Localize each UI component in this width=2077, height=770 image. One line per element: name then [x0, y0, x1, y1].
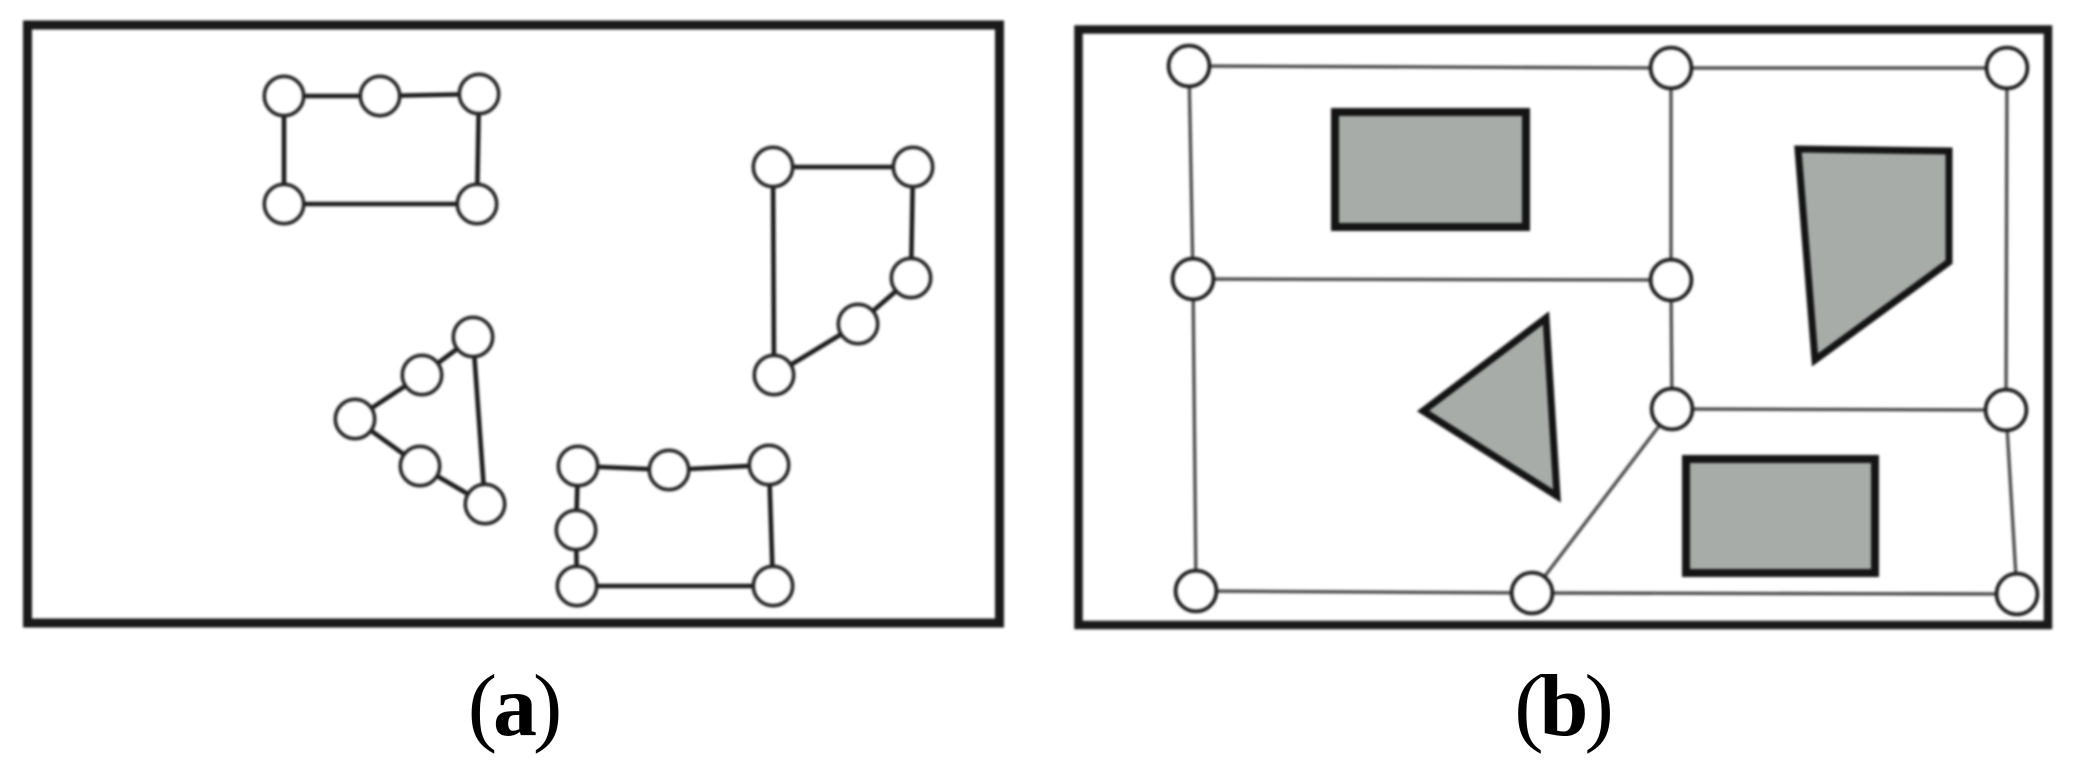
wire B p4-p5: [1193, 279, 1671, 280]
wire B p2-p5: [1669, 68, 1672, 280]
panel (b) frame: [1079, 30, 2049, 626]
wire B p5-p6: [1671, 280, 1672, 409]
node B2: [1651, 48, 1692, 89]
node A4-6: [753, 566, 792, 605]
node A4-2: [649, 450, 688, 489]
wire A2 m3-m4: [858, 278, 911, 324]
node A3-4: [400, 446, 439, 485]
node A1-1: [264, 76, 303, 115]
node A3-3: [335, 399, 374, 438]
node A4-3: [749, 445, 788, 484]
wire A3 t5-t1: [473, 337, 485, 504]
node A3-5: [465, 484, 504, 523]
svg-text:(a): (a): [468, 658, 559, 755]
wire A3 t3-t4: [355, 419, 420, 466]
obstacle rectangle 2: [1686, 459, 1875, 573]
wire A3 t2-t3: [355, 375, 422, 419]
node A2-1: [753, 147, 792, 186]
wire A4 b1-b2: [578, 466, 669, 470]
wire B p6-p7: [1672, 409, 2006, 410]
node B3: [1987, 48, 2028, 89]
wire A1 n2-n3: [380, 94, 479, 96]
node A2-5: [754, 355, 793, 394]
node A4-4: [556, 510, 595, 549]
wire B p1-p4: [1189, 66, 1193, 279]
obstacle rectangle 1: [1335, 112, 1526, 227]
node A2-3: [891, 258, 930, 297]
obstacle triangle: [1423, 318, 1557, 496]
wire B p8-p9: [1196, 591, 1532, 593]
node A2-4: [838, 304, 877, 343]
wire A4 b2-b3: [669, 465, 769, 470]
wire A2 m5-m1: [773, 167, 774, 375]
wire B p9-p10: [1532, 593, 2017, 594]
wire B p1-p2: [1189, 66, 1671, 68]
node A1-2: [360, 76, 399, 115]
wire A2 m2-m3: [911, 167, 913, 278]
wire A1 n1-n4: [282, 96, 287, 204]
node B9: [1512, 573, 1553, 614]
svg-text:(b): (b): [1514, 658, 1610, 755]
wire A1 n1-n2: [284, 94, 380, 99]
panel (a) frame: [28, 25, 1000, 623]
node B4: [1173, 259, 1214, 300]
wire A1 n4-n5: [284, 202, 477, 207]
node B10: [1997, 574, 2038, 615]
node B5: [1651, 260, 1692, 301]
node A3-2: [402, 355, 441, 394]
node A1-5: [457, 184, 496, 223]
wire A4 b5-b6: [577, 584, 773, 589]
wire B p2-p3: [1671, 66, 2007, 69]
node A1-4: [264, 184, 303, 223]
node A1-3: [459, 74, 498, 113]
node B7: [1986, 390, 2027, 431]
node A3-1: [453, 317, 492, 356]
wire A2 m4-m5: [774, 324, 858, 375]
wire A2 m1-m2: [773, 165, 913, 170]
wire A3 t1-t2: [422, 337, 473, 375]
node B1: [1169, 46, 1210, 87]
wire B p3-p7: [2006, 68, 2007, 410]
obstacle quadrilateral: [1798, 149, 1949, 360]
wire A4 b3-b6: [769, 465, 773, 586]
wire B p9-p6 diagonal: [1532, 409, 1672, 593]
node B6: [1652, 389, 1693, 430]
node A4-1: [558, 446, 597, 485]
node B8: [1176, 571, 1217, 612]
wire B p7-p10: [2006, 410, 2017, 594]
wire A4 b4-b5: [576, 530, 577, 586]
node A2-2: [893, 147, 932, 186]
wire A3 t4-t5: [420, 466, 485, 504]
wire A1 n3-n5: [477, 94, 479, 204]
node A4-5: [557, 566, 596, 605]
wire A4 b1-b4: [576, 466, 578, 530]
wire B p4-p8: [1193, 279, 1196, 591]
